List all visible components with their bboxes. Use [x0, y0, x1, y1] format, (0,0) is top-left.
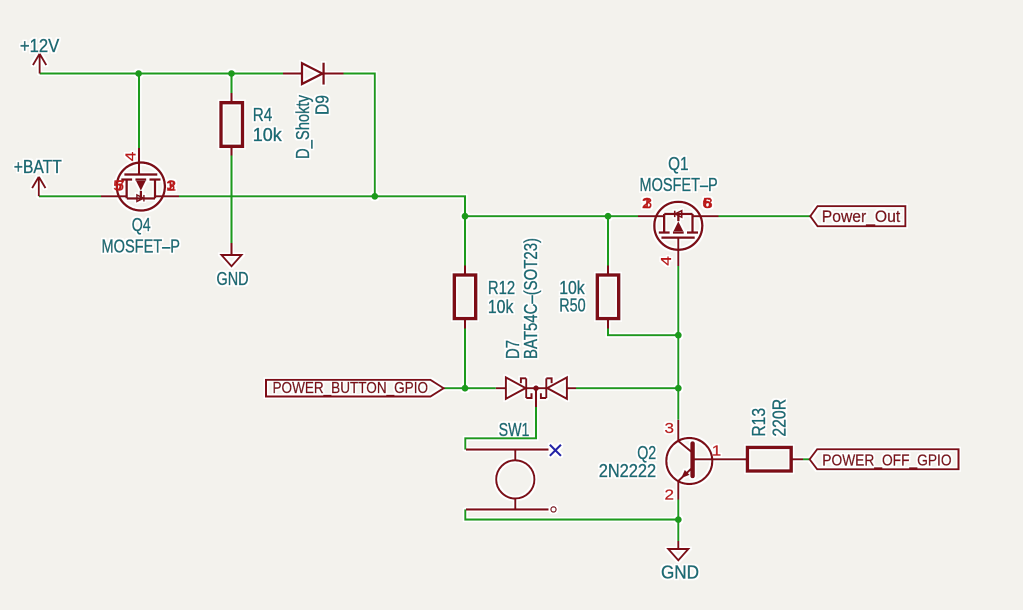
svg-text:MOSFET–P: MOSFET–P — [102, 237, 181, 257]
svg-text:R4: R4 — [253, 105, 272, 125]
svg-text:POWER_OFF_GPIO: POWER_OFF_GPIO — [822, 453, 951, 470]
svg-text:SW1: SW1 — [499, 420, 530, 440]
svg-text:R13: R13 — [749, 408, 769, 437]
svg-text:2N2222: 2N2222 — [599, 461, 657, 481]
svg-text:Q4: Q4 — [132, 215, 151, 235]
svg-text:10k: 10k — [488, 297, 514, 317]
svg-text:POWER_BUTTON_GPIO: POWER_BUTTON_GPIO — [273, 380, 429, 397]
svg-text:4: 4 — [123, 152, 140, 162]
svg-text:Q2: Q2 — [637, 443, 656, 463]
svg-text:GND: GND — [661, 563, 699, 583]
svg-text:BAT54C–(SOT23): BAT54C–(SOT23) — [521, 238, 541, 359]
svg-text:4: 4 — [658, 256, 675, 266]
svg-text:D_Shokty: D_Shokty — [293, 95, 314, 159]
svg-text:+BATT: +BATT — [14, 157, 62, 177]
svg-text:+12V: +12V — [20, 36, 59, 56]
svg-text:D9: D9 — [313, 95, 333, 115]
svg-text:MOSFET–P: MOSFET–P — [640, 175, 718, 195]
svg-text:220R: 220R — [770, 399, 790, 437]
svg-text:Q1: Q1 — [668, 154, 688, 174]
svg-text:R12: R12 — [488, 278, 515, 298]
svg-text:1: 1 — [642, 195, 651, 212]
svg-text:2: 2 — [665, 487, 675, 504]
svg-text:10k: 10k — [253, 125, 283, 145]
svg-text:7: 7 — [116, 178, 125, 195]
svg-text:1: 1 — [712, 443, 722, 460]
svg-text:3: 3 — [665, 420, 675, 437]
svg-text:Power_Out: Power_Out — [822, 208, 901, 226]
svg-text:5: 5 — [703, 195, 712, 212]
svg-text:3: 3 — [166, 178, 175, 195]
svg-text:R50: R50 — [559, 295, 585, 315]
svg-text:D7: D7 — [503, 340, 523, 359]
svg-text:GND: GND — [217, 269, 249, 289]
